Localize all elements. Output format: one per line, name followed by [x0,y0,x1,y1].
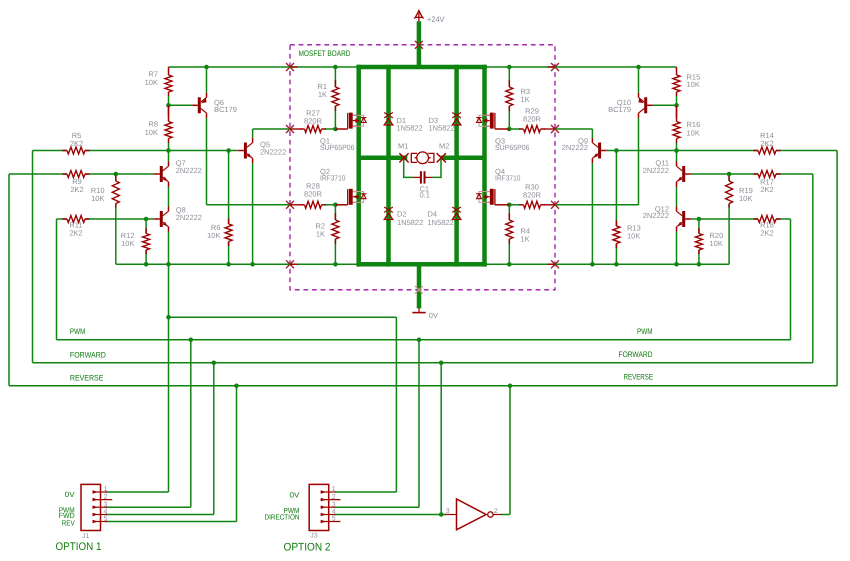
svg-text:BC179: BC179 [214,105,237,114]
svg-text:820R: 820R [304,189,323,198]
svg-text:2K2: 2K2 [70,139,83,148]
wire ground rail left [116,263,359,265]
svg-text:J3: J3 [310,533,318,540]
svg-text:REV: REV [62,519,75,528]
svg-text:1K: 1K [521,95,530,104]
wire J1 pin3 to PWM [106,340,191,507]
wire Q10 collector to R30 row [555,118,639,205]
junction ground rail at R13 [614,262,619,267]
capacitor C1 [413,171,432,199]
wire R30 row [509,204,555,206]
svg-text:+24V: +24V [427,15,445,24]
resistor R19 [726,176,753,208]
power symbol +24V [414,11,445,24]
junction ground rail at Q5 emitter [250,262,255,267]
svg-text:1N5822: 1N5822 [429,124,455,133]
svg-text:2N2222: 2N2222 [643,166,669,175]
wire Q5 emitter to ground [252,163,254,264]
boundary cross mark right edge top rail [551,63,558,70]
wire R6 column [228,151,230,265]
wire PWM row [57,339,791,341]
inverter gate IC1 [445,499,502,530]
transistor Q9 [562,136,607,163]
boundary cross mark right edge R29 row [551,125,558,132]
wire REVERSE net R9 row to Q7 base [9,173,154,175]
wire +24V stem (thick) [417,21,422,67]
svg-text:0.1: 0.1 [420,191,430,200]
boundary cross mark left edge top rail [286,63,293,70]
junction ground rail at R2 [333,262,338,267]
transistor Q5 [238,138,286,163]
svg-text:10K: 10K [91,194,104,203]
connector J1 [59,484,113,540]
svg-text:FORWARD: FORWARD [619,350,653,359]
svg-text:M2: M2 [439,141,449,150]
wire R3 column [508,67,510,129]
resistor R30 [519,183,545,209]
svg-text:820R: 820R [304,116,323,125]
wire PWM net R11 row to Q8 base [57,218,155,220]
svg-text:MOSFET BOARD: MOSFET BOARD [299,49,351,58]
wire R20 column [698,219,700,264]
wire inner-left bus (thick) [386,65,391,267]
resistor R12 [121,228,150,254]
transistor Q2 [320,167,366,205]
junction R4/R30/Q4 gate [507,203,512,208]
svg-text:820R: 820R [523,114,542,123]
node M1 cross [400,154,408,162]
wire J1 pin5 to REVERSE [106,386,237,522]
wire PWM? R5 row (FORWARD net to Q5 base) [33,150,239,152]
transistor Q12 [643,204,691,231]
connector J3 [265,484,341,539]
label D1 [397,116,423,133]
wire REVERSE row [9,385,837,387]
svg-text:1K: 1K [316,230,325,239]
svg-text:1N5822: 1N5822 [397,218,423,227]
svg-text:10K: 10K [207,231,220,240]
diode D2 [384,207,393,220]
wire C1 right loop [432,159,441,177]
wire Q4 gate lead [495,204,509,206]
svg-text:IRF3710: IRF3710 [495,173,521,182]
wire R4 column [508,205,510,264]
transistor Q7 [154,158,202,186]
svg-text:0V: 0V [65,490,75,499]
svg-text:BC179: BC179 [608,105,631,114]
wire Q6 base from junction [169,104,193,106]
wire J1 pin4 to FORWARD [106,363,214,515]
svg-text:2K2: 2K2 [69,228,82,237]
junction FORWARD row at J1 pin4 riser [212,361,217,366]
junction PWM row at J1 pin3 riser [189,338,194,343]
junction ground rail at Q8 emitter [166,262,171,267]
svg-text:PWM: PWM [70,327,86,336]
svg-text:2K2: 2K2 [760,228,773,237]
resistor R28 [300,182,326,209]
resistor R16 [673,105,700,143]
transistor Q11 [643,158,691,186]
junction 0V branch to J3 [166,315,171,320]
boundary cross mark left edge ground row [286,261,293,268]
boundary cross mark left edge R28 row [286,201,293,208]
wire J3 pin4 to DIRECTION/inverter [335,363,446,515]
ground symbol 0V [412,308,438,320]
wire REVERSE riser right [836,151,838,386]
node M2 cross [437,154,445,162]
junction Q10 base node [674,103,679,108]
wire 0V stem (thick) [417,262,422,308]
svg-text:4: 4 [332,509,336,516]
svg-text:10K: 10K [687,80,700,89]
svg-text:5: 5 [332,516,336,523]
wire R15-R16 column [676,96,678,264]
resistor R13 [613,221,641,249]
junction R16/Q11 collector on R14 row [674,148,679,153]
junction R18 row at R20 top [697,217,702,222]
svg-text:10K: 10K [145,78,158,87]
wire Q3 gate lead [495,128,509,130]
boundary cross mark bottom edge 0V [415,286,423,294]
junction ground rail at R12 [144,262,149,267]
resistor R14 [754,131,781,154]
wire J1 pin1 to 0V [106,491,169,493]
motor M [398,141,449,163]
wire top power bus (thick) [356,65,486,70]
resistor R3 [506,80,530,111]
svg-text:1: 1 [332,486,336,493]
wire R27 row [290,128,335,130]
svg-text:2: 2 [104,494,108,501]
svg-text:1K: 1K [521,235,530,244]
svg-text:SUP65P06: SUP65P06 [320,143,355,152]
junction top rail at R3 [507,65,512,70]
svg-text:0V: 0V [290,490,300,499]
svg-text:FORWARD: FORWARD [70,350,106,359]
svg-text:1N5822: 1N5822 [397,124,423,133]
wire PWM riser right [790,219,792,340]
resistor R9 [63,171,90,195]
svg-text:0V: 0V [429,311,438,320]
wire 0V row to J3 [169,317,397,492]
resistor R6 [207,219,232,247]
boundary cross mark left edge R27 row [286,125,293,132]
svg-text:M1: M1 [398,141,408,150]
wire R2 column [334,205,336,264]
wire Q9 collector to R29 row [555,129,592,138]
junction inverter input / FORWARD riser [439,512,444,517]
svg-text:REVERSE: REVERSE [70,373,104,382]
transistor Q3 [476,113,529,153]
junction R17 row at R19 top [727,172,732,177]
junction ground rail at R4 [507,262,512,267]
MOSFET BOARD dashed outline [290,45,555,290]
resistor R15 [673,67,700,96]
wire J3 pin3 to PWM [335,340,419,507]
svg-text:2: 2 [494,508,498,515]
resistor R18 [754,216,781,238]
junction ground rail at Q9 emitter [590,262,595,267]
resistor R7 [145,67,172,96]
junction R14 row at R13 top [614,148,619,153]
junction REVERSE row at inverter output riser [508,384,513,389]
junction top rail at R1 [333,65,338,70]
wire R19 column [728,174,730,264]
wire R18 row (PWM net to Q12 base) [691,218,791,220]
svg-text:4: 4 [104,509,108,516]
svg-text:IRF3710: IRF3710 [320,173,346,182]
svg-text:2K2: 2K2 [760,139,773,148]
diode D4 [452,207,461,220]
label D2 [397,210,423,227]
wire ground rail right [485,263,730,265]
svg-text:820R: 820R [523,190,542,199]
wire R10 column [115,174,117,264]
resistor R5 [63,131,90,154]
resistor R1 [317,80,338,111]
junction ground rail at R20 [697,262,702,267]
wire ground drop to J1 pin1 [168,264,170,492]
wire Q6 collector to R28 row [207,118,291,205]
svg-text:5: 5 [104,516,108,523]
diode D3 [452,113,461,126]
resistor R10 [91,176,120,208]
junction R9 row at R10 top [114,172,119,177]
resistor R29 [519,107,545,133]
transistor Q1 [320,113,366,153]
wire FORWARD row [33,362,813,364]
wire R28 row [290,204,335,206]
resistor R17 [754,171,781,195]
svg-text:2N2222: 2N2222 [260,148,286,157]
junction R1/R27/Q1 gate [333,127,338,132]
wire Q6 emitter to top rail [206,67,208,93]
wire FORWARD riser right [812,174,814,363]
wire Q2 gate lead [335,204,347,206]
wire motor row right (thick) [441,156,485,161]
wire bottom bus (thick) [356,262,486,267]
resistor R20 [695,228,723,254]
wire REVERSE riser left [8,174,10,386]
svg-text:J1: J1 [82,533,90,540]
boundary cross mark top edge +24V [415,41,422,48]
wire R7-R8 column [168,96,170,264]
transistor Q6 [192,93,237,118]
junction R2/R28/Q2 gate [333,203,338,208]
junction FORWARD row at inverter input riser [439,361,444,366]
transistor Q8 [154,205,202,231]
wire Q5 collector to R27 row [253,129,290,138]
svg-text:10K: 10K [687,129,700,138]
svg-text:2K2: 2K2 [760,185,773,194]
junction ground rail at R6 [226,262,231,267]
svg-text:OPTION 1: OPTION 1 [56,541,102,553]
boundary cross mark right edge ground row [551,261,558,268]
junction R8/Q7 collector on R5 row [166,148,171,153]
wire R1 column [334,67,336,129]
svg-text:10K: 10K [739,194,752,203]
wire Q9 emitter to ground [591,163,593,264]
diode D1 [384,113,393,126]
svg-text:10K: 10K [627,232,640,241]
wire right outer bus (thick) [482,65,487,267]
wire left outer bus (thick) [356,65,361,267]
resistor R27 [300,109,326,133]
wire R29 row [509,128,555,130]
wire R14 row (REVERSE net to Q9 base) [607,150,837,152]
resistor R8 [145,105,172,143]
label D3 [429,116,455,133]
junction PWM row at J3 pin3 riser [417,338,422,343]
resistor R2 [315,213,338,244]
wire motor row left (thick) [359,156,408,161]
wire inner-right bus (thick) [454,65,459,267]
svg-text:REVERSE: REVERSE [624,372,654,381]
wire inverter output to REVERSE [502,386,510,515]
wire Q10 emitter to top rail [638,67,640,93]
svg-text:10K: 10K [145,128,158,137]
svg-text:2N2222: 2N2222 [562,143,588,152]
wire top rail left [169,66,359,68]
transistor Q4 [476,167,520,205]
junction top rail at Q6 emitter [204,65,209,70]
wire R17 row (FORWARD net to Q11 base) [691,173,813,175]
junction top rail at Q10 emitter [636,65,641,70]
wire PWM riser left [56,219,58,340]
boundary cross mark right edge R30 row [551,201,558,208]
resistor R4 [506,213,530,244]
label D4 [428,210,454,227]
wire R12 column [145,219,147,264]
svg-text:1: 1 [104,486,108,493]
resistor R11 [63,216,90,238]
svg-text:3: 3 [446,508,450,515]
svg-text:10K: 10K [121,239,134,248]
svg-text:DIRECTION: DIRECTION [265,513,300,522]
wire Q10 base from junction [653,104,677,106]
wire C1 left loop [404,159,414,177]
wire R13 column [615,151,617,265]
svg-text:PWM: PWM [637,327,653,336]
svg-text:3: 3 [332,501,336,508]
svg-text:SUP65P06: SUP65P06 [495,143,530,152]
junction ground rail at Q12 emitter [674,262,679,267]
svg-text:2N2222: 2N2222 [176,166,202,175]
wire Q1 gate lead [335,128,347,130]
junction R11 row at R12 top [144,217,149,222]
junction R3/R29/Q3 gate [507,127,512,132]
svg-text:1N5822: 1N5822 [428,218,454,227]
transistor Q10 [608,93,653,118]
svg-text:2N2222: 2N2222 [643,211,669,220]
svg-text:2N2222: 2N2222 [176,213,202,222]
junction R5 row at R6 top [226,148,231,153]
svg-text:2K2: 2K2 [70,185,83,194]
svg-text:10K: 10K [710,239,723,248]
svg-text:OPTION 2: OPTION 2 [284,542,331,554]
wire FORWARD riser left [32,151,34,363]
junction REVERSE row at J1 pin5 riser [234,384,239,389]
svg-text:3: 3 [104,501,108,508]
junction Q6 base node [166,103,171,108]
svg-text:2: 2 [332,494,336,501]
wire top rail right [485,66,677,68]
svg-text:1K: 1K [318,90,327,99]
